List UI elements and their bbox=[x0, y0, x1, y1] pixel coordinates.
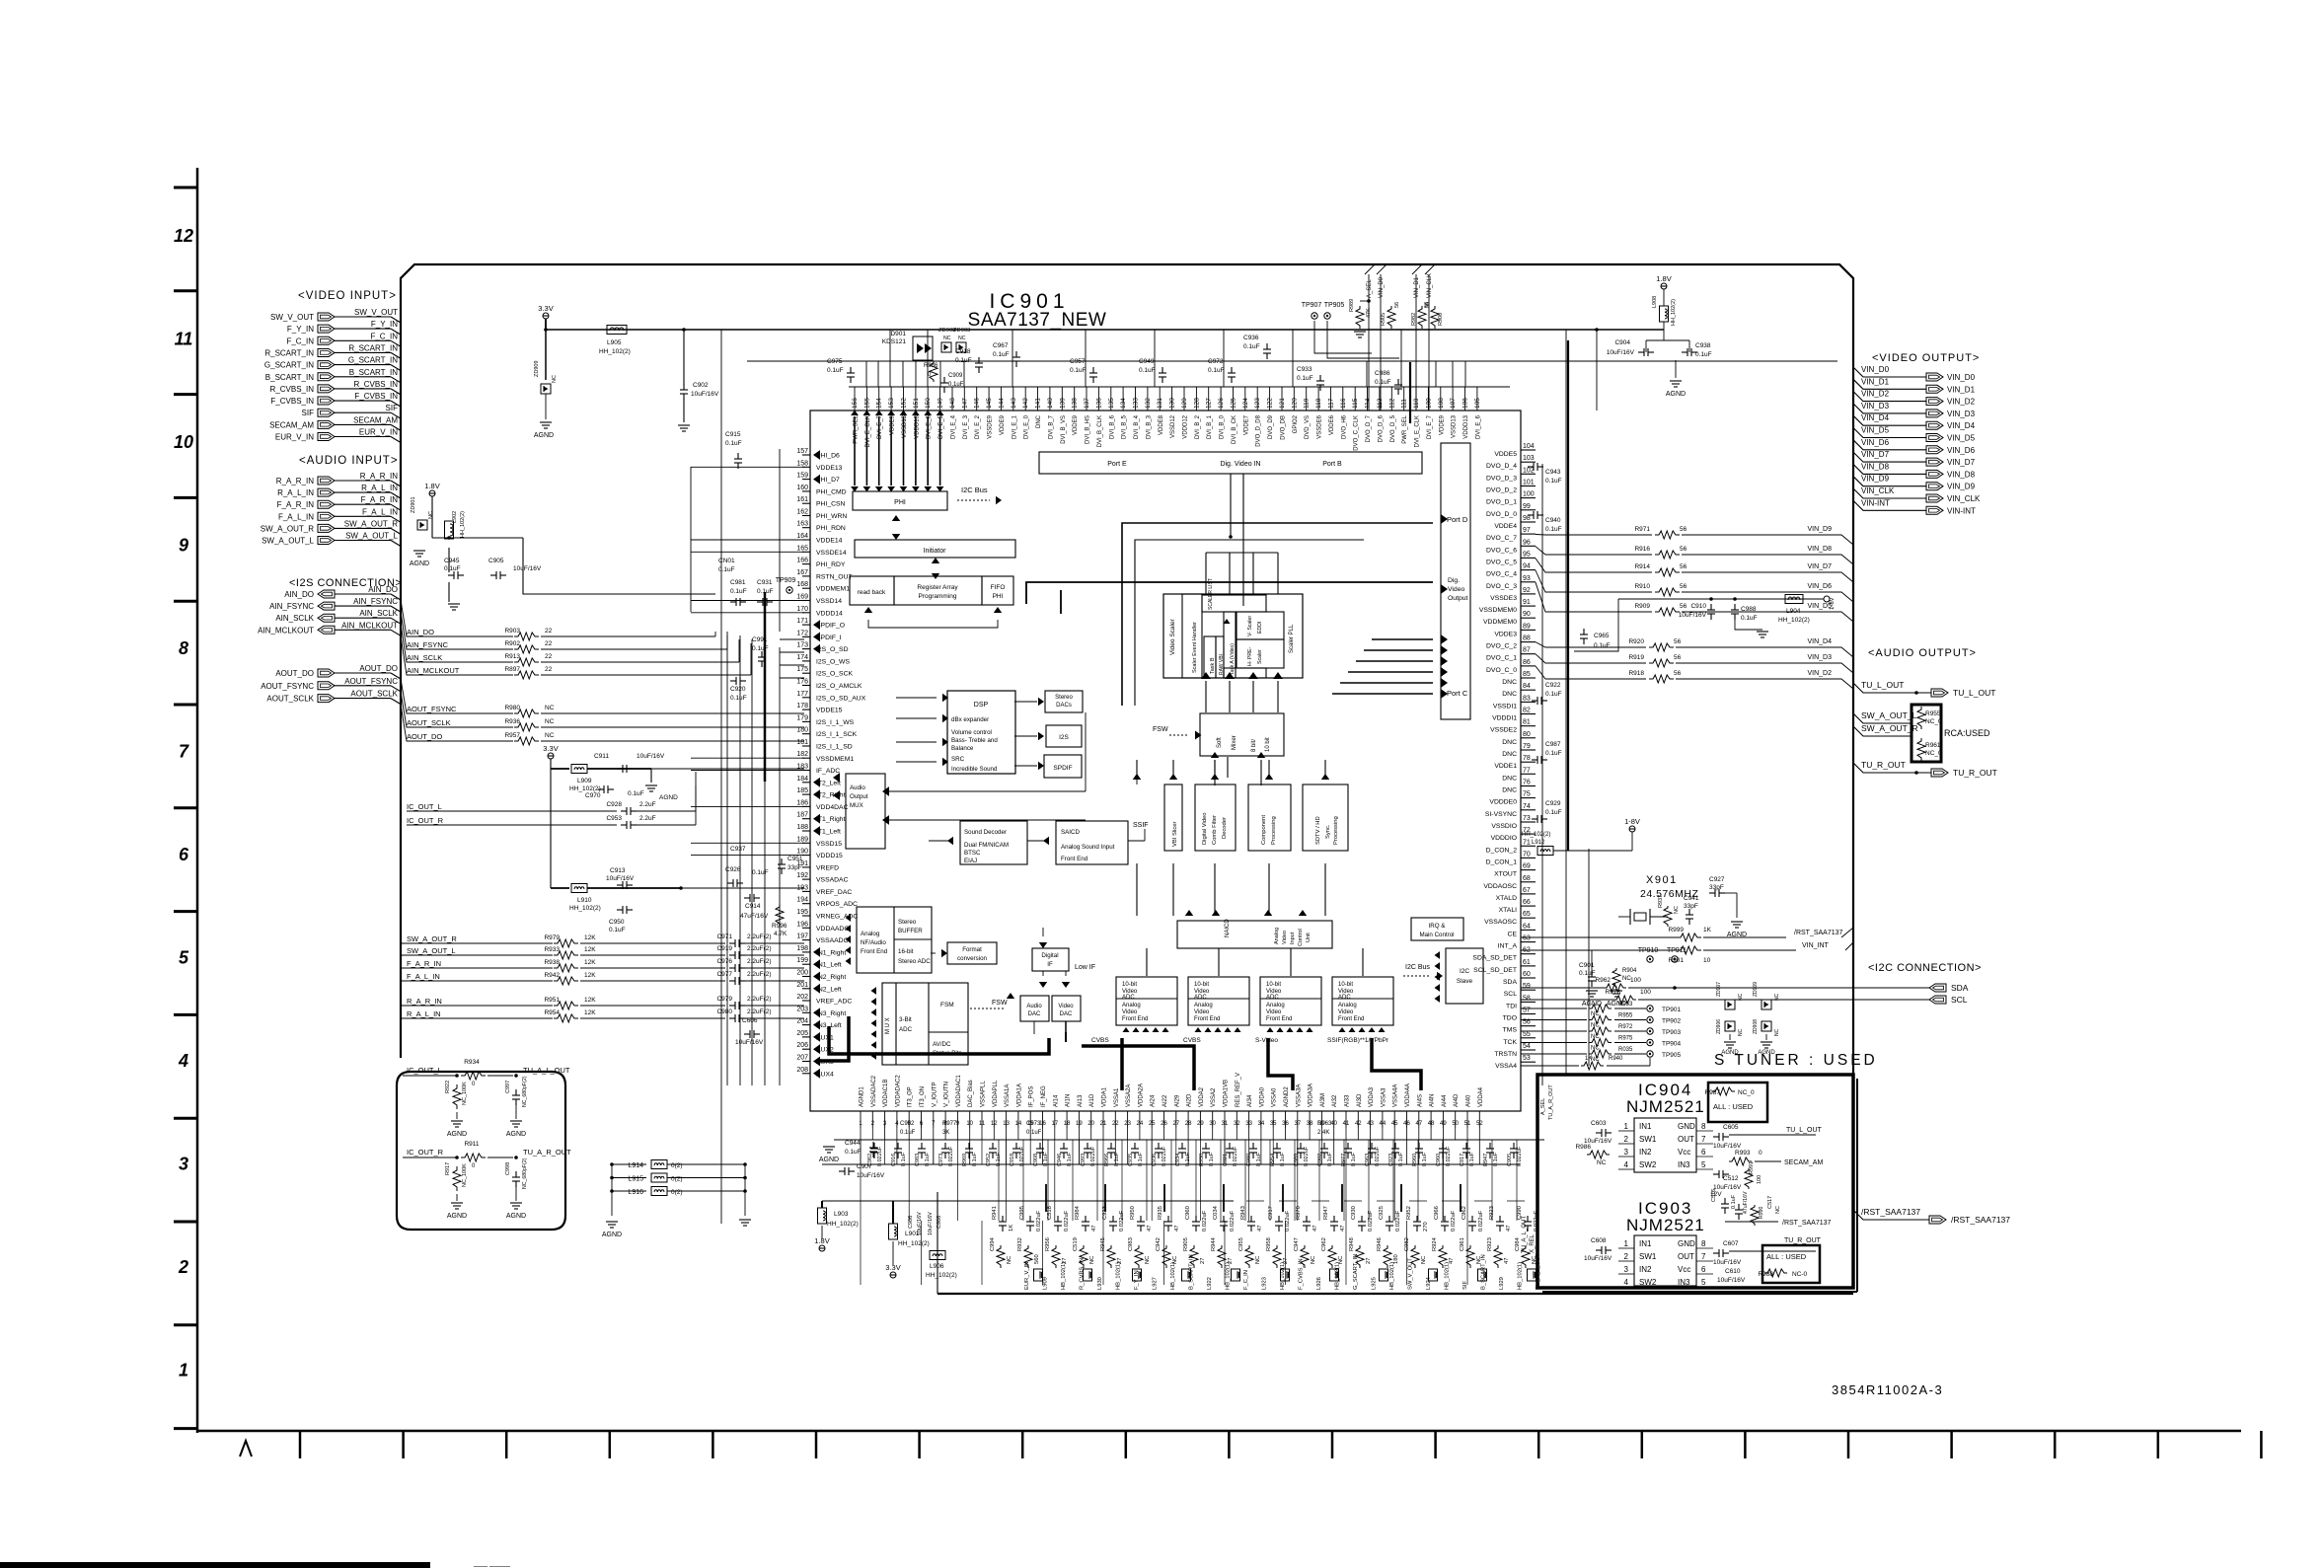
svg-text:VDDMEM1: VDDMEM1 bbox=[816, 586, 850, 593]
svg-text:R947: R947 bbox=[1483, 1154, 1489, 1166]
svg-text:OUT: OUT bbox=[1678, 1135, 1694, 1144]
svg-text:136: 136 bbox=[1095, 398, 1102, 409]
svg-text:142: 142 bbox=[1022, 398, 1029, 409]
svg-text:R993: R993 bbox=[1735, 1150, 1751, 1157]
svg-text:VRNEG_ADC: VRNEG_ADC bbox=[816, 914, 858, 921]
svg-text:10-bit: 10-bit bbox=[1338, 982, 1353, 988]
svg-text:65: 65 bbox=[1523, 911, 1531, 918]
svg-text:VDD4DAC: VDD4DAC bbox=[816, 804, 849, 811]
svg-text:DVO_C_CLK: DVO_C_CLK bbox=[1354, 415, 1360, 451]
svg-text:189: 189 bbox=[796, 836, 808, 843]
svg-text:R914: R914 bbox=[1634, 563, 1650, 570]
svg-text:DVI_B_1: DVI_B_1 bbox=[1207, 414, 1213, 439]
svg-text:VIN_D6: VIN_D6 bbox=[1861, 438, 1890, 447]
svg-text:Balance: Balance bbox=[951, 745, 974, 752]
svg-text:184: 184 bbox=[796, 776, 808, 783]
svg-text:G_SCART_IN: G_SCART_IN bbox=[264, 361, 314, 370]
svg-text:131: 131 bbox=[1157, 398, 1163, 409]
svg-text:DNC: DNC bbox=[1036, 414, 1042, 428]
svg-text:0.022uF: 0.022uF bbox=[1478, 1210, 1484, 1232]
svg-text:C947: C947 bbox=[1294, 1237, 1300, 1251]
svg-text:202: 202 bbox=[796, 994, 808, 1001]
svg-text:167: 167 bbox=[796, 569, 808, 576]
svg-text:75: 75 bbox=[1523, 791, 1531, 798]
svg-text:Video: Video bbox=[1194, 1009, 1210, 1015]
svg-text:Video Scaler: Video Scaler bbox=[1169, 618, 1176, 655]
svg-text:C991: C991 bbox=[752, 636, 768, 643]
svg-text:R957: R957 bbox=[504, 732, 520, 739]
svg-text:0.1uF: 0.1uF bbox=[972, 1152, 978, 1166]
svg-text:VSSA1: VSSA1 bbox=[1114, 1087, 1120, 1107]
svg-text:R936: R936 bbox=[504, 718, 520, 725]
svg-text:0.022uF: 0.022uF bbox=[1395, 1210, 1401, 1232]
svg-text:VIN_D1: VIN_D1 bbox=[1414, 276, 1420, 298]
svg-text:30: 30 bbox=[1209, 1121, 1216, 1127]
svg-text:R979: R979 bbox=[544, 934, 560, 941]
svg-text:5: 5 bbox=[1701, 1278, 1706, 1287]
svg-text:10: 10 bbox=[1703, 957, 1711, 964]
svg-text:SW_V_OUT: SW_V_OUT bbox=[354, 308, 398, 317]
svg-text:PHI: PHI bbox=[993, 593, 1004, 600]
svg-text:IN1: IN1 bbox=[1639, 1239, 1652, 1248]
svg-text:203: 203 bbox=[796, 1006, 808, 1012]
svg-text:L908: L908 bbox=[1652, 296, 1658, 308]
svg-text:NC-0: NC-0 bbox=[1792, 1271, 1808, 1278]
svg-text:R_CVBS_IN: R_CVBS_IN bbox=[354, 380, 399, 389]
svg-text:18: 18 bbox=[1064, 1121, 1071, 1127]
svg-text:I2S_O_SCK: I2S_O_SCK bbox=[816, 671, 853, 678]
svg-text:22: 22 bbox=[545, 666, 553, 673]
svg-text:DNC: DNC bbox=[1502, 679, 1517, 686]
svg-text:FSW: FSW bbox=[992, 1000, 1008, 1007]
svg-text:AGND: AGND bbox=[534, 432, 554, 439]
svg-text:SW_A_OUT_R: SW_A_OUT_R bbox=[1861, 723, 1918, 733]
svg-text:C904: C904 bbox=[1614, 339, 1630, 346]
svg-text:Volume control: Volume control bbox=[951, 729, 992, 736]
svg-text:C905: C905 bbox=[1507, 1154, 1513, 1166]
svg-text:68: 68 bbox=[1523, 875, 1531, 882]
svg-text:SECAM_AM: SECAM_AM bbox=[353, 415, 398, 424]
svg-text:AI24: AI24 bbox=[1151, 1094, 1157, 1107]
svg-text:24: 24 bbox=[1137, 1121, 1144, 1127]
svg-text:79: 79 bbox=[1523, 743, 1531, 750]
svg-text:/RST_SAA7137: /RST_SAA7137 bbox=[1951, 1215, 2010, 1225]
svg-text:IN1: IN1 bbox=[1639, 1122, 1652, 1131]
svg-text:VIN_INT: VIN_INT bbox=[1802, 942, 1830, 949]
svg-text:C944: C944 bbox=[845, 1140, 861, 1147]
svg-text:VIN_D8: VIN_D8 bbox=[1861, 462, 1890, 471]
svg-text:VREFD: VREFD bbox=[816, 864, 839, 871]
svg-text:D_CON_2: D_CON_2 bbox=[1486, 847, 1518, 854]
svg-text:C966: C966 bbox=[1434, 1206, 1440, 1220]
svg-text:10uF/16V: 10uF/16V bbox=[928, 1212, 934, 1235]
svg-text:IF_NEG: IF_NEG bbox=[1041, 1085, 1047, 1107]
svg-text:R977: R977 bbox=[942, 1121, 957, 1127]
svg-text:B_SCART_IN: B_SCART_IN bbox=[265, 373, 314, 382]
svg-text:93: 93 bbox=[1523, 575, 1531, 582]
svg-text:190: 190 bbox=[796, 849, 808, 856]
svg-text:208: 208 bbox=[796, 1067, 808, 1074]
svg-text:163: 163 bbox=[796, 521, 808, 528]
svg-text:4: 4 bbox=[1624, 1160, 1629, 1169]
svg-text:F_CVBS_IN: F_CVBS_IN bbox=[270, 397, 314, 406]
svg-text:180: 180 bbox=[796, 727, 808, 734]
svg-text:ADC: ADC bbox=[1338, 995, 1351, 1001]
svg-text:F_CVBS_IN: F_CVBS_IN bbox=[354, 392, 398, 401]
svg-text:AGND: AGND bbox=[447, 1213, 467, 1220]
svg-text:0.1uF: 0.1uF bbox=[955, 357, 972, 364]
svg-text:C945: C945 bbox=[444, 558, 460, 564]
svg-text:0.1uF: 0.1uF bbox=[1545, 750, 1562, 757]
svg-text:10: 10 bbox=[966, 1121, 973, 1127]
svg-text:FSM: FSM bbox=[940, 1002, 954, 1008]
svg-text:SW_A_OUT_L: SW_A_OUT_L bbox=[1861, 710, 1916, 720]
svg-text:VIN_D5: VIN_D5 bbox=[1947, 434, 1976, 443]
svg-text:17: 17 bbox=[1051, 1121, 1058, 1127]
svg-text:B_SCART_IN: B_SCART_IN bbox=[349, 368, 398, 377]
svg-text:R969: R969 bbox=[962, 1154, 968, 1166]
svg-text:DVO_C_3: DVO_C_3 bbox=[1486, 583, 1517, 590]
svg-text:59: 59 bbox=[1523, 983, 1531, 990]
svg-text:VSSAADC: VSSAADC bbox=[816, 937, 849, 944]
svg-text:DVO_D_1: DVO_D_1 bbox=[1486, 499, 1517, 506]
svg-text:2.2uF(2): 2.2uF(2) bbox=[747, 958, 772, 965]
svg-text:AI13: AI13 bbox=[1078, 1094, 1084, 1107]
svg-text:G_SCART_IN: G_SCART_IN bbox=[1353, 1254, 1359, 1290]
svg-text:160: 160 bbox=[796, 485, 808, 491]
svg-text:Front End: Front End bbox=[1338, 1016, 1364, 1022]
svg-text:33pF: 33pF bbox=[1684, 903, 1698, 910]
svg-text:Video: Video bbox=[1122, 1009, 1138, 1015]
svg-text:173: 173 bbox=[796, 642, 808, 649]
svg-text:148: 148 bbox=[949, 398, 956, 409]
svg-text:27: 27 bbox=[1172, 1121, 1179, 1127]
svg-text:0.1uF: 0.1uF bbox=[1070, 367, 1087, 374]
svg-text:R917: R917 bbox=[445, 1162, 451, 1175]
svg-text:36: 36 bbox=[1282, 1121, 1289, 1127]
svg-text:VDDE14: VDDE14 bbox=[816, 538, 843, 545]
svg-text:F_C_IN: F_C_IN bbox=[286, 336, 314, 345]
svg-text:47: 47 bbox=[1312, 1226, 1318, 1232]
svg-text:VDDAOSC: VDDAOSC bbox=[1483, 883, 1517, 890]
svg-text:R940: R940 bbox=[1609, 1056, 1623, 1062]
svg-text:0.1uF: 0.1uF bbox=[752, 869, 769, 876]
svg-text:ADC: ADC bbox=[1266, 995, 1279, 1001]
svg-text:179: 179 bbox=[796, 714, 808, 721]
svg-text:DVI_B_2: DVI_B_2 bbox=[1195, 414, 1201, 439]
svg-text:NC: NC bbox=[1774, 1028, 1780, 1036]
svg-text:AIN_DO: AIN_DO bbox=[368, 585, 398, 594]
svg-text:3: 3 bbox=[1624, 1265, 1629, 1274]
svg-text:Incredible Sound: Incredible Sound bbox=[951, 766, 998, 773]
svg-text:NC: NC bbox=[552, 375, 558, 383]
svg-text:0.1uF: 0.1uF bbox=[1185, 1152, 1191, 1166]
svg-text:Format: Format bbox=[962, 946, 982, 953]
svg-text:SCL: SCL bbox=[1504, 991, 1517, 998]
svg-text:VDDE1: VDDE1 bbox=[1494, 763, 1517, 770]
svg-text:VDDD13: VDDD13 bbox=[1463, 414, 1469, 438]
svg-text:33pF: 33pF bbox=[1709, 884, 1724, 891]
svg-text:VIN_CLK: VIN_CLK bbox=[1947, 494, 1981, 503]
svg-text:2.2uF: 2.2uF bbox=[639, 801, 656, 808]
svg-text:DVI_E_3: DVI_E_3 bbox=[963, 414, 969, 439]
svg-text:R932: R932 bbox=[1017, 1237, 1023, 1251]
svg-text:TDO: TDO bbox=[1503, 1015, 1517, 1022]
svg-text:Output: Output bbox=[1448, 595, 1468, 602]
svg-text:NC: NC bbox=[545, 718, 555, 725]
svg-text:8: 8 bbox=[1701, 1239, 1706, 1248]
svg-text:C925: C925 bbox=[1379, 1206, 1385, 1220]
svg-text:SDA_SD_DET: SDA_SD_DET bbox=[1472, 955, 1517, 962]
svg-text:Vcc: Vcc bbox=[1678, 1148, 1690, 1157]
svg-text:R980: R980 bbox=[504, 705, 520, 711]
svg-text:R934: R934 bbox=[464, 1059, 480, 1066]
svg-text:DVI_B_5: DVI_B_5 bbox=[1122, 414, 1128, 439]
svg-text:IC_OUT_R: IC_OUT_R bbox=[407, 816, 444, 825]
svg-text:HH_102(2): HH_102(2) bbox=[599, 348, 631, 355]
svg-text:R986: R986 bbox=[1575, 1144, 1591, 1151]
svg-text:CE: CE bbox=[1508, 931, 1518, 937]
svg-text:3.3V: 3.3V bbox=[538, 304, 553, 313]
svg-text:AOUT_DO: AOUT_DO bbox=[275, 669, 314, 678]
svg-text:166: 166 bbox=[796, 558, 808, 564]
svg-text:112: 112 bbox=[1388, 398, 1395, 409]
svg-text:C995: C995 bbox=[1019, 1206, 1025, 1220]
svg-text:C955: C955 bbox=[1238, 1237, 1244, 1251]
svg-text:NC_100K: NC_100K bbox=[462, 1082, 468, 1105]
svg-text:NC: NC bbox=[943, 336, 951, 341]
svg-text:SW1: SW1 bbox=[1639, 1135, 1657, 1144]
svg-text:R_A_R_IN: R_A_R_IN bbox=[407, 997, 442, 1006]
svg-text:R_A_R_IN: R_A_R_IN bbox=[360, 472, 398, 481]
svg-text:174: 174 bbox=[796, 654, 808, 661]
svg-text:F_C_IN: F_C_IN bbox=[1243, 1270, 1249, 1290]
svg-text:C034: C034 bbox=[1213, 1205, 1219, 1220]
svg-text:X_REL: X_REL bbox=[1530, 1233, 1536, 1253]
svg-text:0.1uF: 0.1uF bbox=[1026, 1130, 1042, 1136]
svg-text:C921: C921 bbox=[1223, 1154, 1229, 1166]
svg-text:C946: C946 bbox=[1057, 1154, 1063, 1166]
svg-text:1K: 1K bbox=[1009, 1225, 1014, 1232]
svg-text:Analog: Analog bbox=[1274, 928, 1280, 944]
svg-text:AI4N: AI4N bbox=[1430, 1094, 1436, 1107]
svg-text:R963: R963 bbox=[1317, 1121, 1332, 1127]
svg-text:10uF/16V: 10uF/16V bbox=[513, 565, 542, 572]
svg-text:56: 56 bbox=[1680, 583, 1687, 590]
svg-text:VIN_D7: VIN_D7 bbox=[1861, 450, 1890, 459]
svg-text:Scaler Event Handler: Scaler Event Handler bbox=[1192, 622, 1198, 673]
svg-text:I2S_O_SD_AUX: I2S_O_SD_AUX bbox=[816, 695, 866, 702]
svg-text:28: 28 bbox=[1185, 1121, 1192, 1127]
svg-text:NC: NC bbox=[1674, 906, 1680, 914]
svg-text:C986: C986 bbox=[1375, 370, 1390, 377]
svg-text:R955: R955 bbox=[1618, 1013, 1633, 1019]
svg-text:C918: C918 bbox=[1010, 1154, 1015, 1166]
svg-text:Stereo ADC: Stereo ADC bbox=[898, 958, 931, 965]
svg-text:34: 34 bbox=[1258, 1121, 1265, 1127]
svg-text:R897: R897 bbox=[504, 666, 520, 673]
svg-text:VDDE9: VDDE9 bbox=[1073, 414, 1079, 435]
svg-text:R962: R962 bbox=[1595, 977, 1611, 984]
svg-text:Video: Video bbox=[1266, 1009, 1282, 1015]
svg-text:I2S_O_WS: I2S_O_WS bbox=[816, 658, 850, 665]
svg-text:10uF/16V: 10uF/16V bbox=[637, 753, 665, 760]
svg-text:56: 56 bbox=[1424, 302, 1430, 308]
svg-text:2.2uF(2): 2.2uF(2) bbox=[747, 1008, 772, 1015]
svg-text:VSSADAC: VSSADAC bbox=[816, 877, 849, 884]
svg-text:NC: NC bbox=[1775, 1206, 1781, 1214]
svg-text:AGND: AGND bbox=[602, 1232, 622, 1238]
svg-text:0.1uF: 0.1uF bbox=[1375, 379, 1391, 386]
svg-text:11: 11 bbox=[979, 1121, 986, 1127]
svg-text:194: 194 bbox=[796, 897, 808, 904]
svg-text:55: 55 bbox=[1523, 1031, 1531, 1038]
svg-text:10uF/16V: 10uF/16V bbox=[917, 1212, 923, 1235]
svg-text:VIN_D7: VIN_D7 bbox=[1807, 563, 1832, 570]
svg-text:135: 135 bbox=[1108, 398, 1115, 409]
svg-text:R984: R984 bbox=[1075, 1205, 1081, 1220]
svg-text:TCK: TCK bbox=[1503, 1039, 1517, 1046]
svg-text:C970: C970 bbox=[585, 792, 601, 799]
svg-text:R_A_L_IN: R_A_L_IN bbox=[407, 1009, 441, 1018]
svg-text:HH_102(2): HH_102(2) bbox=[569, 785, 601, 792]
svg-text:52: 52 bbox=[1476, 1121, 1483, 1127]
svg-text:XTALD: XTALD bbox=[1496, 895, 1517, 902]
svg-text:10uF/16V: 10uF/16V bbox=[1679, 612, 1707, 619]
svg-text:NAICD: NAICD bbox=[1225, 919, 1231, 937]
svg-text:197: 197 bbox=[796, 933, 808, 940]
svg-text:VSSAPLL: VSSAPLL bbox=[981, 1081, 987, 1107]
svg-text:4: 4 bbox=[178, 1051, 188, 1071]
svg-text:AOUT_SCLK: AOUT_SCLK bbox=[350, 690, 398, 699]
svg-text:2: 2 bbox=[178, 1257, 188, 1277]
svg-text:0.022uF: 0.022uF bbox=[1090, 1146, 1096, 1166]
svg-text:0.1uF: 0.1uF bbox=[925, 1152, 931, 1166]
svg-text:FIFO: FIFO bbox=[991, 584, 1006, 591]
svg-text:0.1uF: 0.1uF bbox=[752, 645, 769, 652]
svg-text:0.1uF: 0.1uF bbox=[609, 927, 626, 933]
svg-text:0.1uF: 0.1uF bbox=[725, 440, 742, 447]
svg-text:R978: R978 bbox=[1605, 989, 1620, 996]
svg-text:103: 103 bbox=[1523, 455, 1535, 462]
svg-text:38: 38 bbox=[1307, 1121, 1313, 1127]
svg-text:NC: NC bbox=[1007, 1256, 1012, 1264]
svg-text:C950: C950 bbox=[609, 919, 625, 926]
svg-text:C960: C960 bbox=[1436, 1154, 1442, 1166]
svg-text:R904: R904 bbox=[1622, 968, 1637, 974]
svg-text:C980: C980 bbox=[716, 1008, 732, 1015]
svg-text:VDDA3A: VDDA3A bbox=[1309, 1083, 1314, 1107]
svg-text:C973: C973 bbox=[1026, 1121, 1041, 1127]
svg-text:<VIDEO INPUT>: <VIDEO INPUT> bbox=[298, 290, 397, 302]
svg-text:AV/DC: AV/DC bbox=[933, 1041, 951, 1048]
svg-text:0.022uF: 0.022uF bbox=[1036, 1210, 1042, 1232]
svg-text:176: 176 bbox=[796, 679, 808, 686]
svg-text:C934: C934 bbox=[1175, 1154, 1181, 1166]
svg-text:10uF/16V: 10uF/16V bbox=[1607, 349, 1635, 356]
svg-text:C926: C926 bbox=[725, 866, 741, 873]
svg-text:G_SCART_IN: G_SCART_IN bbox=[348, 356, 398, 365]
svg-text:NC: NC bbox=[1255, 1256, 1261, 1264]
svg-text:185: 185 bbox=[796, 787, 808, 794]
svg-text:0: 0 bbox=[1759, 1150, 1762, 1157]
svg-text:VDDA2: VDDA2 bbox=[1199, 1086, 1205, 1107]
svg-text:56: 56 bbox=[1680, 563, 1687, 570]
svg-text:L916: L916 bbox=[628, 1189, 643, 1196]
svg-text:130: 130 bbox=[1169, 398, 1176, 409]
svg-text:AOUT_SCLK: AOUT_SCLK bbox=[266, 695, 314, 704]
svg-text:Input: Input bbox=[1290, 932, 1296, 944]
svg-text:Dig. Video IN: Dig. Video IN bbox=[1220, 461, 1260, 468]
svg-text:113: 113 bbox=[1377, 398, 1384, 409]
svg-text:HH_102(2): HH_102(2) bbox=[827, 1221, 859, 1228]
svg-text:127: 127 bbox=[1206, 398, 1213, 409]
svg-text:TMS: TMS bbox=[1503, 1027, 1518, 1034]
svg-text:SW_V_OUT: SW_V_OUT bbox=[1408, 1258, 1414, 1290]
svg-text:10uF/16V: 10uF/16V bbox=[691, 391, 719, 398]
svg-text:R_A_L_IN: R_A_L_IN bbox=[277, 488, 314, 497]
svg-text:47: 47 bbox=[1091, 1226, 1097, 1232]
svg-text:3-Bit: 3-Bit bbox=[899, 1016, 912, 1023]
svg-text:87: 87 bbox=[1523, 647, 1531, 654]
svg-text:151: 151 bbox=[913, 398, 920, 409]
svg-text:GPIO2: GPIO2 bbox=[1293, 414, 1299, 433]
svg-text:SECAM_AM: SECAM_AM bbox=[269, 420, 314, 429]
svg-text:IT2_Right: IT2_Right bbox=[816, 792, 846, 799]
svg-text:VSSDIO: VSSDIO bbox=[1491, 823, 1517, 830]
svg-text:C512: C512 bbox=[1723, 1175, 1739, 1182]
svg-text:L909: L909 bbox=[577, 778, 592, 784]
svg-text:Digital Video: Digital Video bbox=[1202, 813, 1208, 845]
svg-text:VDDE9: VDDE9 bbox=[1439, 414, 1445, 435]
svg-text:VDDA1VB: VDDA1VB bbox=[1224, 1080, 1230, 1107]
svg-text:F_A_L_IN: F_A_L_IN bbox=[278, 512, 314, 521]
svg-text:0.1uF: 0.1uF bbox=[1297, 375, 1313, 382]
svg-text:<AUDIO INPUT>: <AUDIO INPUT> bbox=[299, 455, 399, 467]
svg-text:C928: C928 bbox=[606, 801, 622, 808]
svg-text:10uF/16V: 10uF/16V bbox=[606, 875, 635, 882]
svg-text:R972: R972 bbox=[1618, 1024, 1633, 1030]
svg-text:C901: C901 bbox=[1579, 962, 1595, 969]
svg-text:C940: C940 bbox=[1545, 517, 1561, 524]
svg-text:SIF: SIF bbox=[302, 409, 315, 417]
svg-text:VREF_DAC: VREF_DAC bbox=[816, 889, 852, 896]
svg-text:R930: R930 bbox=[1199, 1154, 1205, 1166]
svg-text:VDDAADC: VDDAADC bbox=[816, 926, 849, 933]
svg-text:10uF/16V: 10uF/16V bbox=[1713, 1184, 1742, 1191]
svg-text:VSSD13: VSSD13 bbox=[1452, 414, 1458, 438]
svg-text:XTALI: XTALI bbox=[1499, 907, 1517, 914]
svg-text:X901: X901 bbox=[1646, 874, 1678, 886]
svg-text:DNC: DNC bbox=[1502, 739, 1517, 746]
svg-text:I2S_I_1_SCK: I2S_I_1_SCK bbox=[816, 731, 858, 738]
svg-text:VIN_D1: VIN_D1 bbox=[1947, 385, 1976, 394]
svg-text:0.022uF: 0.022uF bbox=[1451, 1210, 1457, 1232]
svg-text:IT3_OP: IT3_OP bbox=[908, 1086, 914, 1107]
svg-text:C913: C913 bbox=[610, 867, 626, 874]
svg-text:C606: C606 bbox=[742, 1017, 758, 1024]
svg-text:0.1uF: 0.1uF bbox=[1422, 1152, 1428, 1166]
svg-text:128: 128 bbox=[1193, 398, 1200, 409]
svg-text:40: 40 bbox=[1330, 1121, 1337, 1127]
svg-text:C972: C972 bbox=[1208, 358, 1224, 365]
svg-text:0.1uF: 0.1uF bbox=[1579, 970, 1596, 977]
svg-text:R947: R947 bbox=[1323, 1206, 1329, 1220]
svg-text:0.1uF: 0.1uF bbox=[1138, 1152, 1144, 1166]
svg-text:Analog: Analog bbox=[1338, 1003, 1357, 1008]
svg-text:99: 99 bbox=[1523, 503, 1531, 510]
svg-text:0.022uF: 0.022uF bbox=[1202, 1210, 1208, 1232]
